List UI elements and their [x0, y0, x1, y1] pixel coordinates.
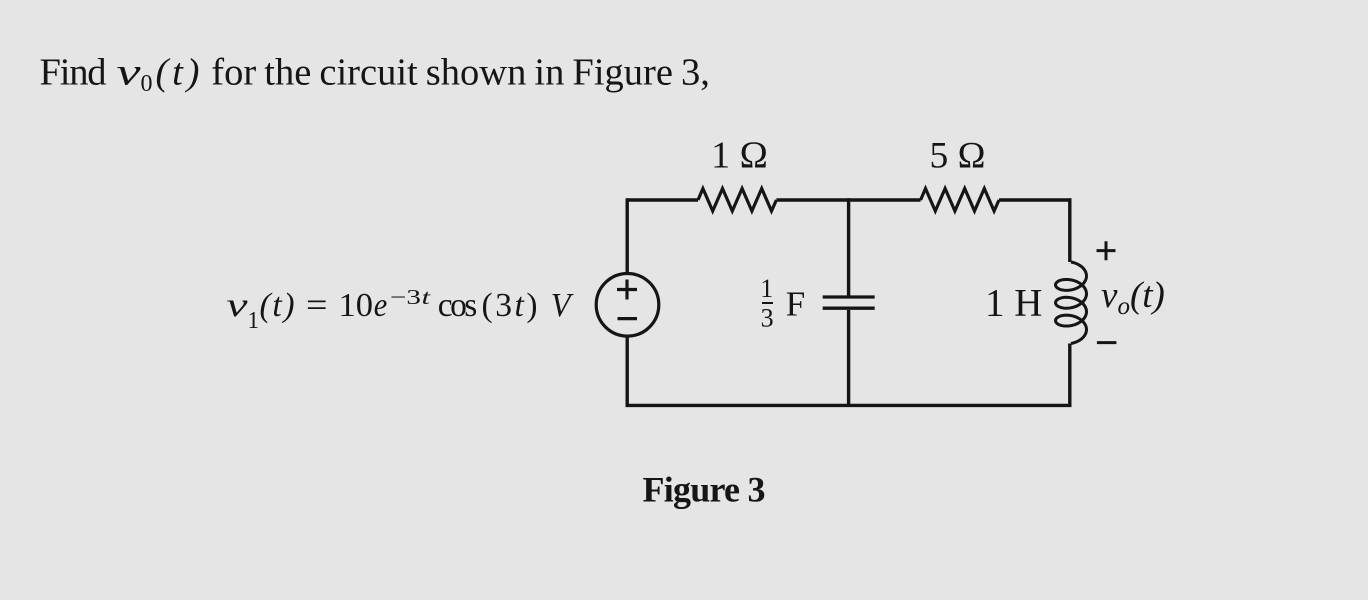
- resistor R1 1 Ohm: [698, 189, 776, 212]
- svg-text:vo(t): vo(t): [1101, 275, 1165, 320]
- wire right vertical lower: [1068, 344, 1071, 408]
- svg-text:0: 0: [141, 71, 153, 97]
- svg-text:for the circuit shown in Figur: for the circuit shown in Figure 3,: [211, 52, 710, 94]
- wire middle vertical lower: [847, 310, 850, 407]
- source label v1(t) = 10e^-3t cos(3t) V: [227, 285, 575, 334]
- svg-text:1 Ω: 1 Ω: [711, 135, 768, 177]
- wire top-left horizontal: [627, 198, 698, 201]
- svg-text:v: v: [227, 287, 248, 324]
- wire left vertical upper: [626, 198, 629, 274]
- resistor R2 5 Ohm: [921, 189, 999, 212]
- voltage source plus sign: [617, 280, 637, 300]
- svg-text:3: 3: [761, 303, 774, 332]
- svg-text:10: 10: [339, 287, 374, 324]
- svg-text:Find: Find: [40, 52, 107, 94]
- wire bottom horizontal: [626, 404, 1072, 407]
- svg-text:1 H: 1 H: [985, 282, 1042, 325]
- svg-text:e: e: [374, 287, 388, 324]
- svg-text:v: v: [117, 52, 142, 94]
- svg-text:(3t): (3t): [482, 287, 538, 324]
- voltage source V1 circle: [596, 274, 659, 337]
- output plus sign: [1097, 241, 1116, 260]
- wire left vertical lower: [626, 336, 629, 407]
- svg-text:Figure 3: Figure 3: [643, 470, 766, 510]
- svg-text:t: t: [422, 285, 432, 309]
- capacitor C1 top plate: [823, 295, 875, 298]
- svg-text:(t): (t): [260, 287, 295, 324]
- svg-text:1: 1: [760, 274, 773, 303]
- svg-text:F: F: [786, 284, 805, 323]
- svg-text:5 Ω: 5 Ω: [930, 136, 986, 177]
- voltage source minus sign: [618, 317, 638, 320]
- wire middle vertical upper: [847, 198, 850, 295]
- wire top-right horizontal: [999, 198, 1072, 201]
- title text: [40, 52, 710, 98]
- svg-text:=: =: [306, 287, 328, 324]
- wire right vertical upper: [1068, 198, 1071, 262]
- inductor L1 coil: [1056, 262, 1087, 344]
- svg-text:1: 1: [248, 308, 260, 334]
- wire top-middle horizontal: [776, 198, 920, 201]
- svg-text:−3: −3: [390, 285, 421, 309]
- svg-text:cos: cos: [438, 287, 478, 324]
- svg-text:V: V: [551, 287, 574, 324]
- svg-text:(t): (t): [156, 52, 200, 94]
- capacitor C1 bottom plate: [823, 307, 875, 310]
- output minus sign: [1097, 341, 1117, 344]
- label 1/3 F fraction bar: [762, 302, 773, 304]
